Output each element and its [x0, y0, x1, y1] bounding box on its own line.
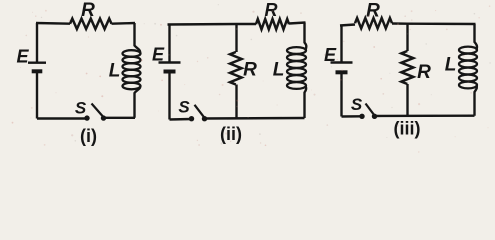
- svg-text:E: E: [16, 47, 29, 67]
- svg-text:R: R: [366, 1, 380, 22]
- svg-text:L: L: [273, 60, 285, 81]
- svg-text:S: S: [178, 98, 190, 117]
- svg-text:S: S: [75, 99, 87, 118]
- svg-text:E: E: [152, 45, 165, 65]
- svg-text:R: R: [81, 0, 95, 21]
- svg-text:R: R: [265, 0, 278, 20]
- svg-text:S: S: [351, 95, 363, 114]
- svg-text:R: R: [243, 60, 257, 81]
- svg-text:(iii): (iii): [394, 119, 421, 139]
- svg-text:(i): (i): [80, 126, 97, 146]
- svg-text:R: R: [417, 62, 431, 83]
- svg-text:L: L: [109, 61, 121, 82]
- svg-text:E: E: [324, 45, 337, 65]
- svg-text:L: L: [445, 55, 457, 76]
